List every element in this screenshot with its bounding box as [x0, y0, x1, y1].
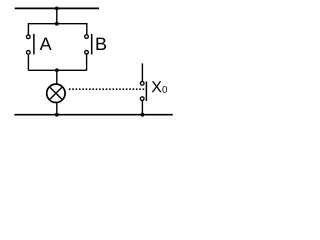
wire lamp to bottom rail — [56, 103, 58, 115]
label B — [96, 38, 106, 50]
wire from top rail to parallel bus — [56, 8, 58, 23]
lamp L cross — [49, 87, 62, 100]
wire bottom bus of parallel branches — [28, 69, 86, 71]
contact B terminal circles — [85, 35, 89, 39]
contact B blade — [91, 34, 93, 55]
label X0 — [152, 81, 162, 92]
wire contact A to bottom bus — [27, 55, 29, 71]
contact A terminal circles — [26, 35, 30, 39]
node junction on top rail — [55, 6, 59, 10]
wire contact B to bottom bus — [86, 55, 88, 71]
wire bottom rail — [14, 114, 172, 116]
node junction on bottom bus — [55, 68, 59, 72]
contact X0 blade — [145, 82, 147, 102]
label A — [40, 38, 52, 50]
wire top bus of parallel branches — [28, 24, 86, 35]
contact X0 terminal circles — [140, 82, 144, 86]
wire stub above contact X0 — [141, 63, 143, 81]
node junction lamp / bottom rail — [55, 113, 59, 117]
node junction on top bus — [55, 22, 59, 26]
label X0 subscript — [162, 86, 167, 93]
dashed mechanical link lamp to contact X0 — [69, 88, 146, 90]
node junction contact X0 / bottom rail — [141, 113, 145, 117]
wire top rail — [15, 7, 99, 9]
wire contact X0 to bottom rail — [141, 101, 143, 115]
lamp L circle — [47, 84, 65, 102]
contact A blade — [33, 34, 35, 55]
wire bus to lamp — [56, 70, 58, 84]
